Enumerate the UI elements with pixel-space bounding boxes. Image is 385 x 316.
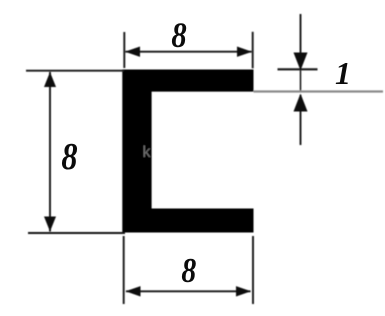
svg-text:k: k	[143, 144, 152, 161]
